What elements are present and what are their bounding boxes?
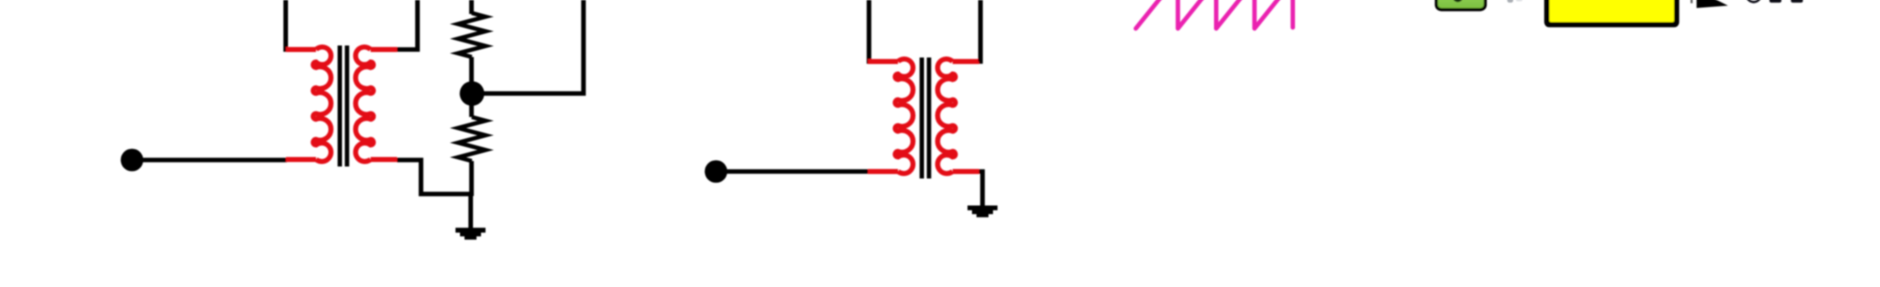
node junction divider midpoint — [460, 81, 485, 106]
transformer T2 secondary bottom lead — [953, 169, 979, 174]
transformer T2 primary top lead — [868, 59, 898, 64]
wire T1 primary top to top edge — [283, 0, 288, 52]
transformer T2 primary bottom lead — [868, 169, 898, 174]
sawtooth waveform icon — [1136, 0, 1182, 29]
resistor R2 top lead — [469, 97, 474, 117]
wire T1 secondary top to top edge — [397, 0, 418, 50]
resistor R1 top lead — [469, 0, 474, 14]
play arrow glyph — [1697, 0, 1728, 8]
small tick left of play arrow — [1691, 0, 1693, 3]
transformer T1 secondary bottom lead — [371, 157, 397, 162]
ground middle circuit — [968, 206, 998, 218]
letter f stem bottom 2 — [1791, 0, 1803, 3]
resistor R1 bottom lead — [469, 57, 474, 90]
gray toolbar scrap — [1507, 0, 1513, 3]
wire junction to ground — [468, 194, 473, 229]
transformer T1 primary winding — [313, 47, 331, 162]
wire input node to transformer T1 primary — [135, 158, 287, 163]
wire input node to transformer T2 primary — [719, 169, 869, 174]
transformer T2 secondary top lead — [953, 59, 979, 64]
ground left circuit — [456, 228, 486, 240]
letter f stem bottom — [1769, 0, 1781, 3]
transformer T1 primary bottom lead — [286, 157, 316, 162]
wire T2 secondary bottom to ground — [979, 172, 983, 207]
node dot middle circuit input — [705, 160, 728, 183]
letter o bottom (toolbar text) — [1747, 0, 1761, 2]
transformer T2 primary winding — [895, 59, 913, 174]
transformer T1 core — [338, 46, 342, 167]
wire T1 secondary bottom to divider junction — [397, 160, 471, 194]
transformer T2 core — [920, 58, 924, 179]
green toolbar button — [1435, 0, 1487, 11]
dark icon glyph inside green button — [1453, 0, 1462, 2]
wire divider midpoint to output riser — [478, 0, 584, 94]
wire T2 primary top to top edge — [867, 0, 872, 64]
node dot left circuit input — [121, 149, 144, 172]
transformer T1 primary top lead — [286, 47, 316, 52]
transformer T2 secondary winding — [938, 59, 956, 174]
yellow toolbar box — [1544, 0, 1679, 27]
transformer T1 secondary winding — [356, 47, 374, 162]
resistor R2 — [458, 117, 486, 161]
resistor R2 bottom lead — [469, 161, 474, 196]
wire T2 secondary top to top edge — [979, 0, 981, 62]
resistor R1 — [458, 13, 486, 57]
transformer T1 secondary top lead — [371, 47, 397, 52]
